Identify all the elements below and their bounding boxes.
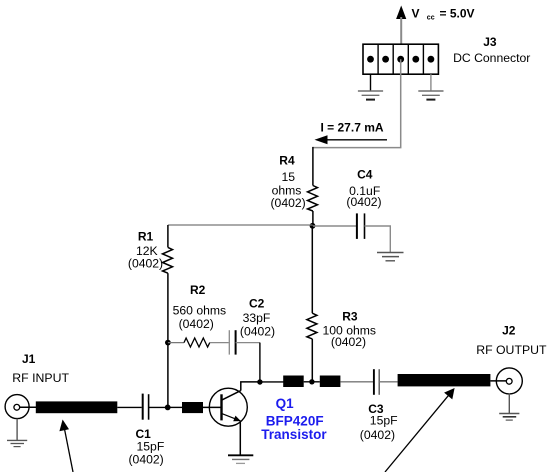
svg-text:(0402): (0402)	[331, 335, 366, 349]
microstrip collector right	[320, 376, 341, 388]
transistor Q1	[209, 388, 247, 426]
wire R1 top	[167, 225, 169, 247]
ground under Q1	[228, 455, 253, 463]
wire J3 pin1 to ground	[370, 74, 372, 91]
resistor R4	[308, 186, 318, 212]
wire Q1 emitter down	[239, 421, 241, 456]
ground under C4	[377, 253, 404, 261]
svg-text:= 5.0V: = 5.0V	[440, 7, 475, 21]
node dot C2 feedback	[257, 379, 262, 384]
svg-text:R1: R1	[138, 230, 154, 244]
wire microstrip to Q1 base	[203, 406, 221, 408]
svg-text:I = 27.7 mA: I = 27.7 mA	[321, 121, 384, 135]
node dot R1/R2	[165, 340, 171, 346]
svg-text:R3: R3	[342, 309, 358, 323]
wire J3 pin3 down and left to R4	[313, 59, 401, 147]
wire R1 node down to input line	[167, 343, 169, 408]
wire microstrip to C1	[117, 406, 141, 408]
wire J2 to ground	[508, 394, 510, 414]
svg-text:RF INPUT: RF INPUT	[12, 371, 69, 385]
wire C1 to base node	[149, 406, 168, 408]
svg-text:(0402): (0402)	[360, 428, 395, 442]
ground under J2	[499, 414, 519, 421]
svg-text:DC Connector: DC Connector	[453, 51, 530, 65]
wire microstrip to J2	[490, 380, 506, 382]
wire C4 to ground	[365, 226, 391, 253]
svg-text:J2: J2	[502, 323, 516, 337]
svg-text:(0402): (0402)	[240, 325, 275, 339]
net label Vcc = 5.0V	[412, 7, 475, 22]
annotation arrow input microstrip	[59, 420, 73, 472]
wire R4 bottom to node	[312, 211, 314, 226]
wire Q1 collector up	[241, 382, 260, 391]
wire base node to microstrip	[168, 406, 182, 408]
svg-text:33pF: 33pF	[243, 311, 271, 325]
svg-text:J1: J1	[22, 352, 36, 366]
resistor R2	[184, 338, 210, 347]
Vcc arrow	[396, 6, 406, 45]
svg-text:RF OUTPUT: RF OUTPUT	[476, 343, 547, 357]
microstrip base	[182, 402, 203, 413]
wire node to R1 top	[168, 224, 313, 226]
svg-text:560 ohms: 560 ohms	[173, 303, 227, 317]
node dot R4/C4/R3/R1	[310, 223, 316, 229]
capacitor C1	[143, 394, 149, 420]
wire node to C4	[313, 225, 357, 227]
wire C3 to output microstrip	[379, 381, 397, 383]
svg-text:15pF: 15pF	[137, 439, 165, 453]
ground under J1	[7, 440, 27, 446]
wire collector node to microstrip	[260, 381, 284, 383]
microstrip output	[398, 374, 491, 386]
wire corner to R4 top	[312, 147, 314, 186]
svg-text:15pF: 15pF	[370, 414, 398, 428]
wire J3 pin5 to ground	[430, 74, 432, 91]
svg-text:Q1: Q1	[276, 396, 295, 411]
svg-text:(0402): (0402)	[346, 195, 381, 209]
wire R2 to C2	[210, 342, 229, 344]
DC connector J3	[363, 44, 438, 74]
svg-text:C4: C4	[357, 168, 373, 182]
node dot R3/collector	[309, 379, 314, 384]
wire node to R3 top	[311, 226, 313, 313]
capacitor C2	[229, 330, 235, 354]
svg-text:15: 15	[282, 170, 296, 184]
microstrip collector left	[283, 376, 304, 388]
svg-text:(0402): (0402)	[271, 196, 306, 210]
svg-text:R4: R4	[279, 154, 295, 168]
annotation arrow output microstrip	[385, 388, 455, 472]
wire microstrip to C3	[340, 381, 373, 383]
svg-text:V: V	[412, 7, 420, 21]
svg-text:Transistor: Transistor	[261, 427, 327, 442]
svg-text:R2: R2	[190, 283, 206, 297]
wire R1 bottom to R2 node	[167, 273, 169, 342]
connector J2	[496, 368, 522, 394]
svg-text:(0402): (0402)	[128, 257, 163, 271]
current arrow	[315, 135, 388, 144]
capacitor C4	[357, 213, 365, 239]
microstrip input	[36, 401, 118, 413]
ground under J3 right	[418, 91, 443, 100]
svg-text:(0402): (0402)	[129, 453, 164, 467]
wire J1 to ground	[16, 419, 18, 441]
resistor R3	[307, 313, 317, 339]
svg-text:cc: cc	[427, 14, 435, 21]
capacitor C3	[374, 369, 379, 395]
wire R3 bottom to collector line	[311, 339, 313, 382]
wire to R3 node	[304, 381, 320, 383]
wire R2 left	[168, 342, 184, 344]
ground under J3 left	[358, 91, 383, 100]
wire C2 to collector node	[236, 342, 260, 344]
svg-text:(0402): (0402)	[179, 317, 214, 331]
svg-text:J3: J3	[483, 35, 497, 49]
svg-text:C2: C2	[249, 296, 265, 310]
connector J1	[5, 395, 36, 419]
resistor R1	[163, 247, 173, 273]
node dot base	[165, 405, 171, 411]
